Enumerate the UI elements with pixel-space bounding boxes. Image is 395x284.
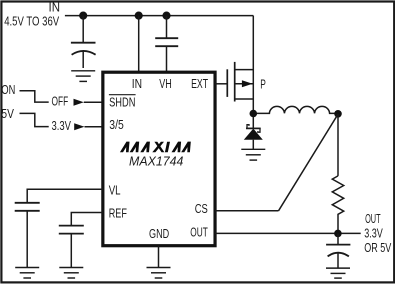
wire REF to C4 bbox=[71, 213, 103, 226]
MAXIM logo bbox=[120, 142, 191, 152]
svg-text:OUT: OUT bbox=[190, 226, 208, 240]
wire top IN rail bbox=[65, 15, 253, 17]
diode D1 Schottky bbox=[244, 125, 263, 150]
node junction on rail at IN pin bbox=[135, 12, 143, 20]
node junction on rail at C1 bbox=[79, 12, 87, 20]
resistor R1 (sense) bbox=[332, 176, 343, 234]
wire arrow to SHDN pin bbox=[84, 101, 102, 103]
IC U1 MAX1744 body bbox=[103, 72, 215, 246]
svg-text:ON: ON bbox=[1, 83, 15, 97]
node OUT junction bbox=[334, 230, 342, 238]
svg-text:P: P bbox=[260, 77, 266, 91]
ground under C1 bbox=[71, 71, 95, 82]
capacitor C1 (polarized input bulk cap) bbox=[71, 43, 96, 68]
wire node to resistor bbox=[337, 114, 339, 176]
wire ON elbow to OFF level bbox=[20, 91, 49, 102]
pin label SHDN with overline bbox=[109, 95, 136, 110]
wire rail to IN pin bbox=[138, 16, 140, 71]
input arrow to SHDN bbox=[74, 99, 84, 106]
transistor Q1 P-channel MOSFET bbox=[227, 62, 253, 102]
capacitor C3 (VL bypass) bbox=[15, 203, 40, 268]
wire rail drop to PFET drain node bbox=[252, 16, 254, 128]
wire arrow to 3/5 pin bbox=[85, 126, 102, 128]
svg-text:EXT: EXT bbox=[191, 77, 208, 91]
svg-text:OUT: OUT bbox=[365, 212, 381, 226]
wire rail to C1 bbox=[82, 16, 84, 42]
wire VL to C3 bbox=[27, 189, 103, 203]
node inductor output junction bbox=[334, 110, 342, 118]
svg-text:3.3V: 3.3V bbox=[52, 119, 72, 133]
svg-text:OFF: OFF bbox=[52, 94, 69, 108]
inductor L1 bbox=[257, 106, 338, 113]
wire OUT pin run bbox=[215, 232, 361, 234]
svg-text:IN: IN bbox=[49, 1, 61, 15]
svg-text:GND: GND bbox=[149, 227, 169, 241]
svg-text:MAX1744: MAX1744 bbox=[129, 155, 183, 169]
input arrow to 3/5 bbox=[74, 123, 84, 130]
svg-text:REF: REF bbox=[109, 207, 127, 221]
node switch node junction bbox=[250, 110, 258, 118]
capacitor C5 (output, polarized) bbox=[326, 233, 350, 268]
ground under GND pin bbox=[147, 268, 171, 279]
ground under C5 bbox=[326, 268, 350, 278]
svg-text:3/5: 3/5 bbox=[109, 118, 124, 132]
svg-text:VH: VH bbox=[159, 77, 172, 91]
wire EXT to gate bbox=[215, 83, 227, 85]
svg-text:3.3V: 3.3V bbox=[364, 227, 383, 241]
svg-text:OR 5V: OR 5V bbox=[364, 241, 392, 255]
wire 5V elbow to 3.3V level bbox=[20, 113, 49, 126]
ground under C3 bbox=[15, 268, 39, 279]
svg-text:CS: CS bbox=[195, 202, 208, 216]
svg-text:4.5V TO 36V: 4.5V TO 36V bbox=[4, 15, 59, 29]
svg-text:5V: 5V bbox=[1, 107, 14, 121]
capacitor C2 (VH bypass) bbox=[155, 38, 178, 71]
ground under C4 bbox=[59, 268, 83, 279]
wire CS pin run bbox=[215, 210, 279, 212]
wire CS diagonal to sense node bbox=[279, 114, 339, 211]
wire rail to C2 bbox=[166, 16, 168, 39]
node junction on rail at C2 bbox=[162, 12, 170, 20]
svg-text:IN: IN bbox=[132, 77, 142, 91]
capacitor C4 (REF bypass) bbox=[59, 226, 84, 268]
svg-text:SHDN: SHDN bbox=[109, 95, 135, 109]
wire GND pin to ground bbox=[158, 246, 160, 268]
ground under D1 bbox=[241, 149, 265, 160]
svg-text:VL: VL bbox=[109, 184, 121, 198]
